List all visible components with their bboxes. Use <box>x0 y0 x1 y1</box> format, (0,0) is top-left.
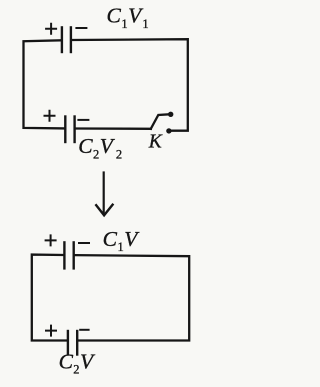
svg-text:C2V2: C2V2 <box>78 134 122 161</box>
svg-text:C1V1: C1V1 <box>107 4 149 31</box>
svg-text:C1V: C1V <box>103 227 141 254</box>
svg-text:K: K <box>148 131 163 152</box>
